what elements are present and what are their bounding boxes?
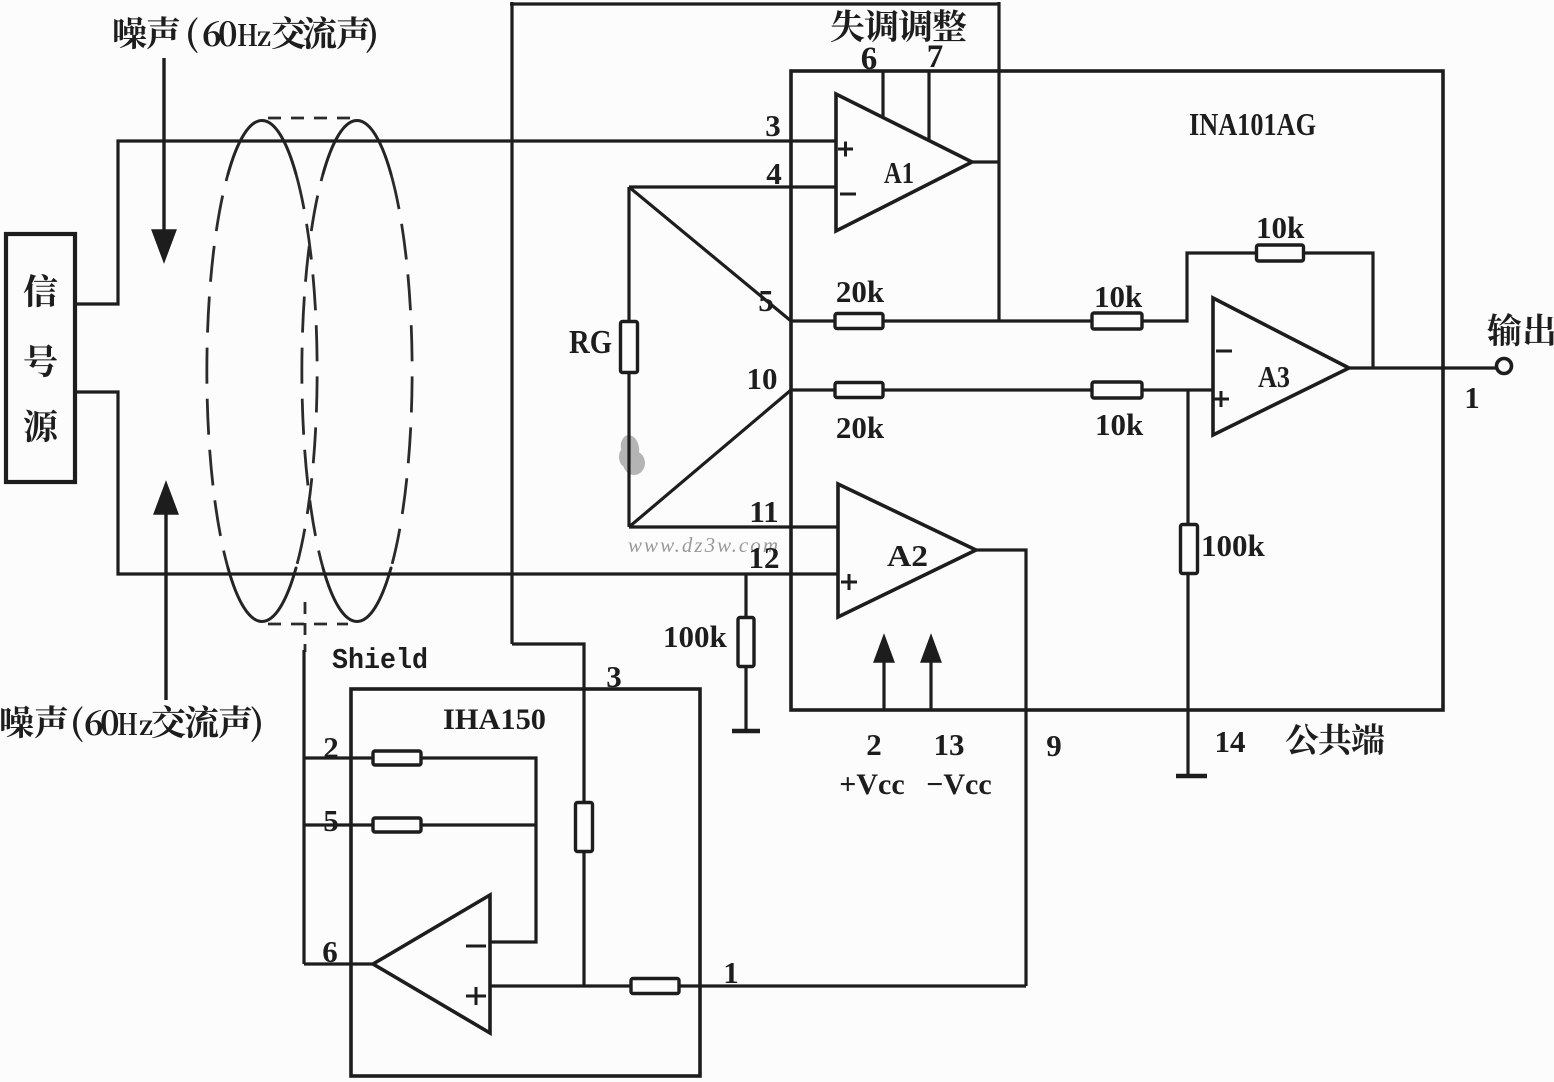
svg-text:9: 9 — [1046, 728, 1062, 763]
svg-text:6: 6 — [322, 934, 338, 969]
svg-text:+Vcc: +Vcc — [839, 768, 904, 801]
svg-text:11: 11 — [749, 494, 778, 529]
svg-text:RG: RG — [569, 324, 612, 361]
svg-text:20k: 20k — [836, 274, 885, 309]
svg-text:10k: 10k — [1095, 407, 1144, 442]
svg-text:5: 5 — [323, 803, 339, 838]
svg-text:10k: 10k — [1256, 210, 1305, 245]
svg-text:100k: 100k — [663, 619, 728, 654]
svg-text:3: 3 — [765, 108, 781, 143]
svg-text:1: 1 — [723, 955, 739, 990]
svg-text:Shield: Shield — [332, 644, 428, 677]
svg-text:3: 3 — [606, 659, 622, 694]
svg-text:4: 4 — [766, 156, 782, 191]
svg-text:−Vcc: −Vcc — [926, 768, 991, 801]
svg-text:A3: A3 — [1258, 359, 1290, 394]
svg-text:5: 5 — [758, 283, 774, 318]
svg-text:IHA150: IHA150 — [443, 703, 546, 736]
svg-text:100k: 100k — [1201, 528, 1266, 563]
svg-text:10: 10 — [747, 361, 778, 396]
svg-text:A1: A1 — [884, 155, 914, 190]
svg-text:13: 13 — [934, 727, 965, 762]
svg-text:14: 14 — [1215, 724, 1246, 759]
svg-text:12: 12 — [749, 540, 780, 575]
svg-text:7: 7 — [927, 39, 944, 75]
svg-text:2: 2 — [323, 730, 339, 765]
svg-text:1: 1 — [1464, 380, 1480, 415]
svg-text:2: 2 — [866, 727, 882, 762]
svg-text:INA101AG: INA101AG — [1189, 106, 1316, 142]
svg-text:20k: 20k — [836, 410, 885, 445]
svg-text:6: 6 — [861, 41, 878, 77]
svg-text:A2: A2 — [887, 538, 928, 573]
svg-text:10k: 10k — [1094, 279, 1143, 314]
